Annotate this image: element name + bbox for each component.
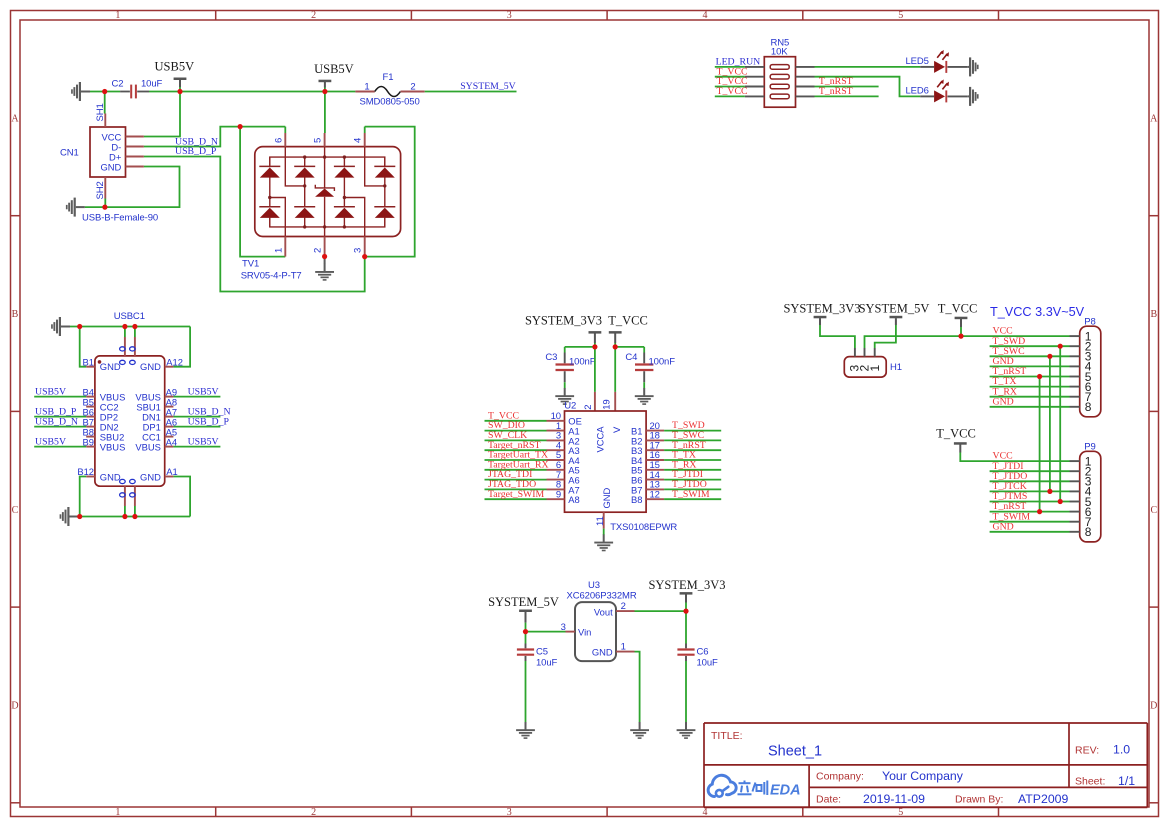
- wire pin4 to net: [364, 127, 366, 133]
- wire + net label Target_nRST: [485, 440, 547, 451]
- ground GND arrow left of C2: [71, 82, 90, 101]
- pin 7 of P8: [1070, 390, 1092, 404]
- wire SH1 to USB5V rail: [104, 92, 106, 114]
- pin B5 of USBC1: [83, 396, 95, 407]
- wire pin6 to net: [284, 127, 286, 133]
- pin B4 of USBC1: [83, 386, 95, 397]
- svg-text:B1: B1: [83, 356, 94, 367]
- svg-text:C6: C6: [697, 646, 709, 657]
- power flag USB5V (right): [314, 62, 354, 92]
- label TV1: [242, 259, 259, 270]
- svg-text:1: 1: [364, 82, 369, 93]
- wire C4 to U2 VCCB: [615, 346, 644, 348]
- svg-text:100nF: 100nF: [569, 356, 596, 367]
- svg-text:T_VCC: T_VCC: [936, 427, 976, 441]
- net label VCC (P8.1): [993, 326, 1013, 337]
- USBC1 bottom shield pins: [120, 479, 136, 516]
- pin 8 of P8: [1070, 400, 1092, 414]
- svg-text:2: 2: [410, 82, 415, 93]
- power flag T_VCC above C4: [608, 313, 648, 347]
- pin 9 (A8) of U2: [547, 489, 580, 505]
- wire + net label GND (P8.4): [990, 356, 1070, 367]
- pin 3 (A2) of U2: [547, 431, 580, 447]
- pin 5 of P8: [1070, 370, 1092, 384]
- pin B6 of USBC1: [83, 406, 95, 417]
- pin B9 of USBC1: [83, 436, 95, 447]
- svg-text:D: D: [11, 701, 18, 712]
- header P9: [1080, 442, 1101, 542]
- wire Vout to SYSTEM_3V3 node: [635, 610, 687, 612]
- junction USBC1 bottom shield pin: [122, 514, 127, 519]
- svg-text:1/1: 1/1: [1118, 774, 1135, 788]
- pin 1 of P9: [1070, 454, 1092, 468]
- svg-text:GND: GND: [993, 396, 1014, 407]
- wire + net label LED_RUN: [715, 57, 760, 68]
- svg-text:Sheet:: Sheet:: [1075, 776, 1105, 788]
- junction USBC1 bottom shield pin: [132, 514, 137, 519]
- svg-text:EDA: EDA: [770, 783, 801, 799]
- wire + net label T_nRST (P9.6): [990, 501, 1070, 512]
- wire GND of CN1 down to SH2 node: [105, 167, 179, 208]
- junction node USB_D_P at TV1 pin3: [362, 254, 367, 259]
- wire SYSTEM_3V3 to H1 pin 3: [820, 325, 855, 348]
- USBC1 GND labels top: [100, 361, 161, 372]
- svg-text:SYSTEM_3V3: SYSTEM_3V3: [525, 313, 602, 327]
- svg-text:A12: A12: [166, 356, 183, 367]
- pin VCC stub: [126, 136, 144, 138]
- wire USB5V rail: [90, 91, 355, 93]
- svg-text:CN1: CN1: [60, 148, 79, 159]
- wire + net label JTAG_TDO: [485, 479, 547, 490]
- svg-text:8: 8: [1085, 525, 1092, 539]
- pin 4 of P9: [1070, 485, 1092, 499]
- wire B1 to top rail: [80, 327, 87, 367]
- svg-text:USB-B-Female-90: USB-B-Female-90: [82, 212, 158, 223]
- wire T_VCC rail H1 pin2 to P8 pin1: [865, 336, 1070, 348]
- wire U3 GND down to ground: [635, 652, 640, 723]
- capacitor C2: [112, 79, 163, 99]
- pin 15 (B5) of U2: [631, 460, 664, 476]
- wire + net label T_VCC (RN5 row3): [715, 76, 748, 87]
- pin 20 (B1) of U2: [631, 421, 664, 437]
- pin B7 of USBC1: [83, 416, 95, 427]
- svg-text:GND: GND: [601, 487, 612, 508]
- wire + net label USB_D_P at B6: [34, 406, 86, 417]
- wire + net label T_RX (P8.7): [990, 386, 1070, 397]
- svg-text:1.0: 1.0: [1113, 743, 1130, 757]
- svg-text:USB5V: USB5V: [155, 60, 195, 74]
- wire + net label USB5V at A4: [173, 436, 220, 447]
- junction SYSTEM_3V3 / Vout / C6: [683, 609, 688, 614]
- pin 19 stub of U2: [602, 392, 616, 411]
- capacitor C6 10uF: [677, 611, 718, 722]
- pin A6 of USBC1: [165, 416, 177, 427]
- wire + net label GND (P9.8): [990, 521, 1070, 532]
- power flag T_VCC (above P9): [936, 427, 976, 453]
- svg-text:T_VCC: T_VCC: [938, 301, 978, 315]
- svg-text:Vin: Vin: [578, 626, 591, 637]
- pin GND stub: [126, 166, 144, 168]
- svg-text:GND: GND: [592, 647, 613, 658]
- USBC1 top shield pins: [120, 327, 136, 365]
- wire T_SWC P8.3 to T_JTCK P9.4: [1047, 354, 1052, 494]
- svg-text:USB_D_P: USB_D_P: [175, 146, 217, 157]
- svg-text:4: 4: [703, 10, 708, 21]
- junction at USB5V flag 1: [177, 89, 182, 94]
- svg-text:3: 3: [507, 10, 512, 21]
- svg-text:11: 11: [595, 516, 606, 526]
- pin D- stub: [126, 146, 144, 148]
- svg-text:P9: P9: [1084, 442, 1095, 453]
- wire A12 to top rail: [173, 327, 190, 367]
- pin 1 (A1) of U2: [547, 421, 580, 437]
- wire SYSTEM_5V to U3 Vin: [526, 631, 566, 633]
- wire + net label USB5V at B4: [34, 386, 86, 397]
- pin 3 of P8: [1070, 350, 1092, 364]
- pin 8 of P9: [1070, 525, 1092, 539]
- wire + net label T_VCC (RN5 row4): [715, 86, 748, 97]
- svg-text:3: 3: [507, 807, 512, 818]
- power flag SYSTEM_5V above C5: [488, 595, 559, 631]
- pin 1 (GND) of U3: [616, 641, 635, 652]
- pin 6 (A5) of U2: [547, 460, 580, 476]
- svg-text:A1: A1: [166, 466, 177, 477]
- wire + net label T_TX: [664, 450, 721, 461]
- pin 3 stub of TV1: [353, 237, 365, 257]
- junction USBC1 top shield pin: [122, 324, 127, 329]
- capacitor C4 100nF: [625, 347, 675, 388]
- svg-text:SYSTEM_5V: SYSTEM_5V: [488, 595, 559, 609]
- svg-text:SYSTEM_5V: SYSTEM_5V: [460, 81, 516, 92]
- svg-text:Sheet_1: Sheet_1: [768, 744, 822, 760]
- pin 16 (B4) of U2: [631, 450, 664, 466]
- svg-text:1: 1: [273, 248, 284, 253]
- svg-text:SRV05-4-P-T7: SRV05-4-P-T7: [241, 271, 302, 282]
- svg-text:A: A: [11, 113, 19, 124]
- svg-text:V: V: [611, 426, 622, 433]
- wire RN5 row2 bend down to LED6: [815, 77, 921, 97]
- svg-text:5: 5: [313, 138, 324, 143]
- ground GND arrow below CN1: [66, 198, 85, 217]
- wire USB5V rail down to TV1 pin 5: [324, 92, 326, 134]
- pin 6 stub right of RN5: [796, 86, 815, 88]
- svg-text:1: 1: [115, 807, 120, 818]
- capacitor C5 10uF: [517, 632, 558, 723]
- svg-text:GND: GND: [140, 471, 161, 482]
- svg-text:GND: GND: [140, 361, 161, 372]
- LED6: [906, 79, 968, 102]
- pin B1 of USBC1: [83, 356, 102, 367]
- svg-text:VCCA: VCCA: [595, 426, 606, 453]
- pin A12 of USBC1: [165, 356, 183, 367]
- pin A9 of USBC1: [165, 386, 177, 397]
- svg-text:B8: B8: [631, 494, 642, 505]
- pin 4 (A3) of U2: [547, 440, 580, 456]
- pin 5 stub of TV1: [313, 133, 325, 147]
- junction at USB5V flag 2: [322, 89, 327, 94]
- wire + net label T_VCC (RN5 row2): [715, 66, 748, 77]
- svg-text:VBUS: VBUS: [100, 441, 126, 452]
- wire + net label USB5V at A9: [173, 386, 220, 397]
- svg-text:3: 3: [353, 248, 364, 253]
- wire RN5 row1 to LED5: [815, 66, 921, 68]
- pin 5 (A4) of U2: [547, 450, 580, 466]
- svg-text:1: 1: [115, 10, 120, 21]
- svg-text:C: C: [12, 505, 19, 516]
- USBC1 bottom ground wire: [79, 516, 191, 518]
- junction SYSTEM_5V / C5 / Vin: [523, 629, 528, 634]
- svg-text:Drawn By:: Drawn By:: [955, 794, 1003, 806]
- svg-text:REV:: REV:: [1075, 745, 1099, 757]
- wire + net label T_JTDO (P9.3): [990, 471, 1070, 482]
- svg-text:SYSTEM_3V3: SYSTEM_3V3: [648, 578, 725, 592]
- pin 6 of P8: [1070, 380, 1092, 394]
- wire A1 to bottom rail: [173, 477, 190, 517]
- svg-text:USB5V: USB5V: [188, 436, 219, 447]
- junction T_VCC flag at P8 rail: [958, 334, 963, 339]
- pin 14 (B6) of U2: [631, 470, 664, 486]
- power flag USB5V (left): [155, 60, 195, 92]
- wire + net label T_SWD (P8.2): [990, 336, 1070, 347]
- pin 7 of P9: [1070, 515, 1092, 529]
- wire + net label T_nRST (row3): [815, 76, 879, 87]
- wire + net label T_JTDI (P9.2): [990, 461, 1070, 472]
- svg-text:1: 1: [621, 641, 626, 652]
- pin 2 stub of U2: [583, 392, 595, 411]
- junction node USB_D_N: [238, 124, 243, 129]
- pin 12 (B8) of U2: [631, 489, 664, 505]
- wire + net label T_JTDI: [664, 469, 721, 480]
- svg-text:SYSTEM_5V: SYSTEM_5V: [859, 301, 930, 315]
- svg-text:B: B: [12, 309, 19, 320]
- pin A8 of USBC1: [165, 396, 177, 407]
- junction at C2 left: [102, 89, 107, 94]
- power flag SYSTEM_3V3 above C6: [648, 578, 725, 611]
- pin SH2 of CN1: [95, 177, 106, 200]
- svg-text:P8: P8: [1084, 317, 1095, 328]
- wire + net label T_nRST (P8.5): [990, 366, 1070, 377]
- wire + net label T_RX: [664, 459, 721, 470]
- ground below TV1 pin 2: [315, 257, 334, 281]
- ground arrow right of LED5: [968, 57, 979, 76]
- wire + net label USB_D_P at A6: [173, 416, 229, 427]
- junction USBC1 top shield pin: [132, 324, 137, 329]
- pin 5 of P9: [1070, 495, 1092, 509]
- pin B12 of USBC1: [77, 466, 95, 477]
- LED5: [906, 50, 968, 73]
- svg-text:U3: U3: [588, 580, 600, 591]
- wire + net label T_SWC: [664, 430, 721, 441]
- pin 10 (OE) of U2: [547, 411, 582, 427]
- svg-text:LED6: LED6: [906, 86, 929, 97]
- pin A1 of USBC1: [165, 466, 178, 477]
- header P8: [1080, 317, 1101, 417]
- wire + net label T_TX (P8.6): [990, 376, 1070, 387]
- pin 2 stub left of RN5: [745, 76, 765, 78]
- svg-text:T_VCC: T_VCC: [717, 86, 748, 97]
- svg-text:TV1: TV1: [242, 259, 259, 270]
- svg-text:SYSTEM_3V3: SYSTEM_3V3: [783, 301, 860, 315]
- pin 17 (B3) of U2: [631, 440, 664, 456]
- pin 7 stub right of RN5: [796, 76, 815, 78]
- svg-text:LED5: LED5: [906, 56, 929, 67]
- svg-text:USBC1: USBC1: [114, 311, 145, 322]
- svg-text:2: 2: [311, 10, 316, 21]
- svg-text:C3: C3: [545, 352, 557, 363]
- wire + net label T_VCC: [485, 410, 547, 421]
- pin 3 (Vin) of U3: [561, 622, 575, 633]
- net label T_VCC 3.3V~5V: [990, 305, 1085, 319]
- pin 3 stub left of RN5: [745, 86, 765, 88]
- pin 4 stub of TV1: [353, 133, 365, 147]
- USBC1 internal pin names: [100, 391, 161, 452]
- wire T_SWD P8.2 to T_JTMS P9.5: [1058, 344, 1063, 505]
- svg-text:10uF: 10uF: [141, 79, 163, 90]
- wire + net label USB_D_N at A7: [173, 406, 230, 417]
- svg-text:Your Company: Your Company: [882, 769, 964, 783]
- svg-text:XC6206P332MR: XC6206P332MR: [567, 590, 637, 601]
- svg-text:100nF: 100nF: [649, 356, 676, 367]
- power flag SYSTEM_3V3 above C3: [525, 313, 602, 347]
- svg-text:2019-11-09: 2019-11-09: [863, 792, 925, 806]
- wire + net label TargetUart_RX: [485, 459, 549, 470]
- pin SH1 of CN1: [95, 103, 106, 127]
- pin 6 stub of TV1: [273, 133, 285, 147]
- pin 2 of P9: [1070, 465, 1092, 479]
- svg-text:5: 5: [898, 807, 903, 818]
- svg-text:2: 2: [313, 248, 324, 253]
- svg-text:1: 1: [868, 365, 882, 372]
- wire + net label T_SWIM: [664, 489, 721, 500]
- net label USB_D_N: [175, 136, 218, 147]
- wire + net label T_nRST (row4): [815, 86, 879, 97]
- svg-text:USB5V: USB5V: [35, 386, 66, 397]
- pin A7 of USBC1: [165, 406, 177, 417]
- svg-text:USB_D_P: USB_D_P: [188, 416, 230, 427]
- wire + net label T_SWC (P8.3): [990, 346, 1070, 357]
- svg-text:Vout: Vout: [594, 607, 613, 618]
- svg-text:2: 2: [583, 405, 594, 410]
- svg-text:5: 5: [898, 10, 903, 21]
- wire + net label T_SWIM (P9.7): [990, 511, 1070, 522]
- junction VCCA node: [592, 344, 597, 349]
- label SRV05-4-P-T7: [241, 271, 302, 282]
- svg-text:3: 3: [561, 622, 566, 633]
- wire + net label TargetUart_TX: [485, 450, 549, 461]
- svg-text:9: 9: [556, 489, 561, 500]
- pin 8 (A7) of U2: [547, 480, 580, 496]
- svg-text:A8: A8: [568, 494, 579, 505]
- pin 6 of P9: [1070, 505, 1092, 519]
- svg-text:GND: GND: [100, 361, 121, 372]
- USBC1 top ground wire: [70, 326, 190, 328]
- connector CN1 USB-B-Female-90: [60, 127, 158, 223]
- ground below C6: [677, 722, 696, 739]
- wire + net label T_JTCK (P9.4): [990, 481, 1070, 492]
- wire SH2 to ground: [85, 199, 106, 208]
- ground arrow left of USBC1 bottom: [60, 507, 79, 526]
- svg-text:2: 2: [621, 601, 626, 612]
- wire + net label GND (P8.8): [990, 396, 1070, 407]
- wire T_VCC to P9 pin1: [960, 453, 1069, 462]
- svg-text:10uF: 10uF: [536, 658, 558, 669]
- svg-text:ATP2009: ATP2009: [1018, 792, 1069, 806]
- wire U2 GND to ground: [603, 529, 605, 535]
- svg-text:USB_D_N: USB_D_N: [35, 416, 78, 427]
- power flag SYSTEM_3V3 (right): [783, 301, 860, 325]
- svg-text:19: 19: [602, 399, 613, 409]
- pin 18 (B2) of U2: [631, 431, 664, 447]
- svg-text:4: 4: [353, 138, 364, 143]
- pin 4 stub left of RN5: [745, 95, 765, 97]
- svg-text:4: 4: [703, 807, 708, 818]
- ground below C5: [516, 722, 535, 739]
- net label USB_D_P: [175, 146, 217, 157]
- svg-text:Company:: Company:: [816, 771, 864, 783]
- junction at TV1 pin2 ground: [322, 254, 327, 259]
- ground below C4: [635, 388, 654, 405]
- svg-text:SMD0805-050: SMD0805-050: [360, 97, 420, 108]
- ground below C3: [555, 388, 574, 405]
- ground arrow right of LED6: [968, 87, 979, 106]
- pin 7 (A6) of U2: [547, 470, 580, 486]
- svg-text:USB5V: USB5V: [188, 386, 219, 397]
- wire C3 to U2 VCCA: [565, 346, 595, 348]
- wire + net label T_nRST: [664, 440, 721, 451]
- svg-text:C5: C5: [536, 646, 548, 657]
- svg-text:12: 12: [650, 489, 660, 500]
- IC U3 XC6206P332MR body: [567, 580, 637, 661]
- svg-text:C4: C4: [625, 352, 637, 363]
- svg-text:USB5V: USB5V: [314, 62, 354, 76]
- pin 2 (Vout) of U3: [616, 601, 635, 612]
- svg-text:T_VCC 3.3V~5V: T_VCC 3.3V~5V: [990, 305, 1085, 319]
- svg-text:TXS0108EPWR: TXS0108EPWR: [610, 522, 677, 533]
- wire + net label Target_SWIM: [485, 489, 547, 500]
- svg-text:GND: GND: [100, 161, 121, 172]
- wire + net label USB_D_N at B7: [34, 416, 86, 427]
- wire + net label T_JTMS (P9.5): [990, 491, 1070, 502]
- header H1: [844, 348, 902, 377]
- wire VCCA pin vertical: [594, 347, 596, 392]
- net label VCC (P9.1): [993, 451, 1013, 462]
- wire + net label T_JTDO: [664, 479, 721, 490]
- pin A4 of USBC1: [165, 436, 177, 447]
- wire T_nRST P8.5 to T_nRST P9.6: [1037, 374, 1042, 514]
- svg-text:Target_SWIM: Target_SWIM: [488, 489, 545, 500]
- diode array TV1 SRV05-4-P-T7: [255, 147, 401, 237]
- svg-text:D: D: [1150, 701, 1157, 712]
- pin 8 stub right of RN5: [796, 66, 815, 68]
- wire net USB_D_N: [144, 127, 285, 257]
- junction at SH2 ground node: [102, 205, 107, 210]
- svg-text:F1: F1: [383, 72, 394, 83]
- svg-text:C2: C2: [112, 79, 124, 90]
- wire B12 to bottom rail: [80, 477, 87, 517]
- svg-text:Date:: Date:: [816, 794, 841, 806]
- svg-text:TITLE:: TITLE:: [711, 730, 743, 742]
- svg-text:2: 2: [311, 807, 316, 818]
- junction B1 to top rail: [77, 324, 82, 329]
- wire + net label JTAG_TDI: [485, 469, 547, 480]
- svg-text:H1: H1: [890, 362, 902, 373]
- svg-text:GND: GND: [993, 521, 1014, 532]
- pin B8 of USBC1: [83, 426, 95, 437]
- wire + net label SYSTEM_5V: [425, 81, 517, 92]
- ground arrow left of USBC1 top: [51, 317, 70, 336]
- pin 4 of P8: [1070, 360, 1092, 374]
- pin 5 stub right of RN5: [796, 95, 815, 97]
